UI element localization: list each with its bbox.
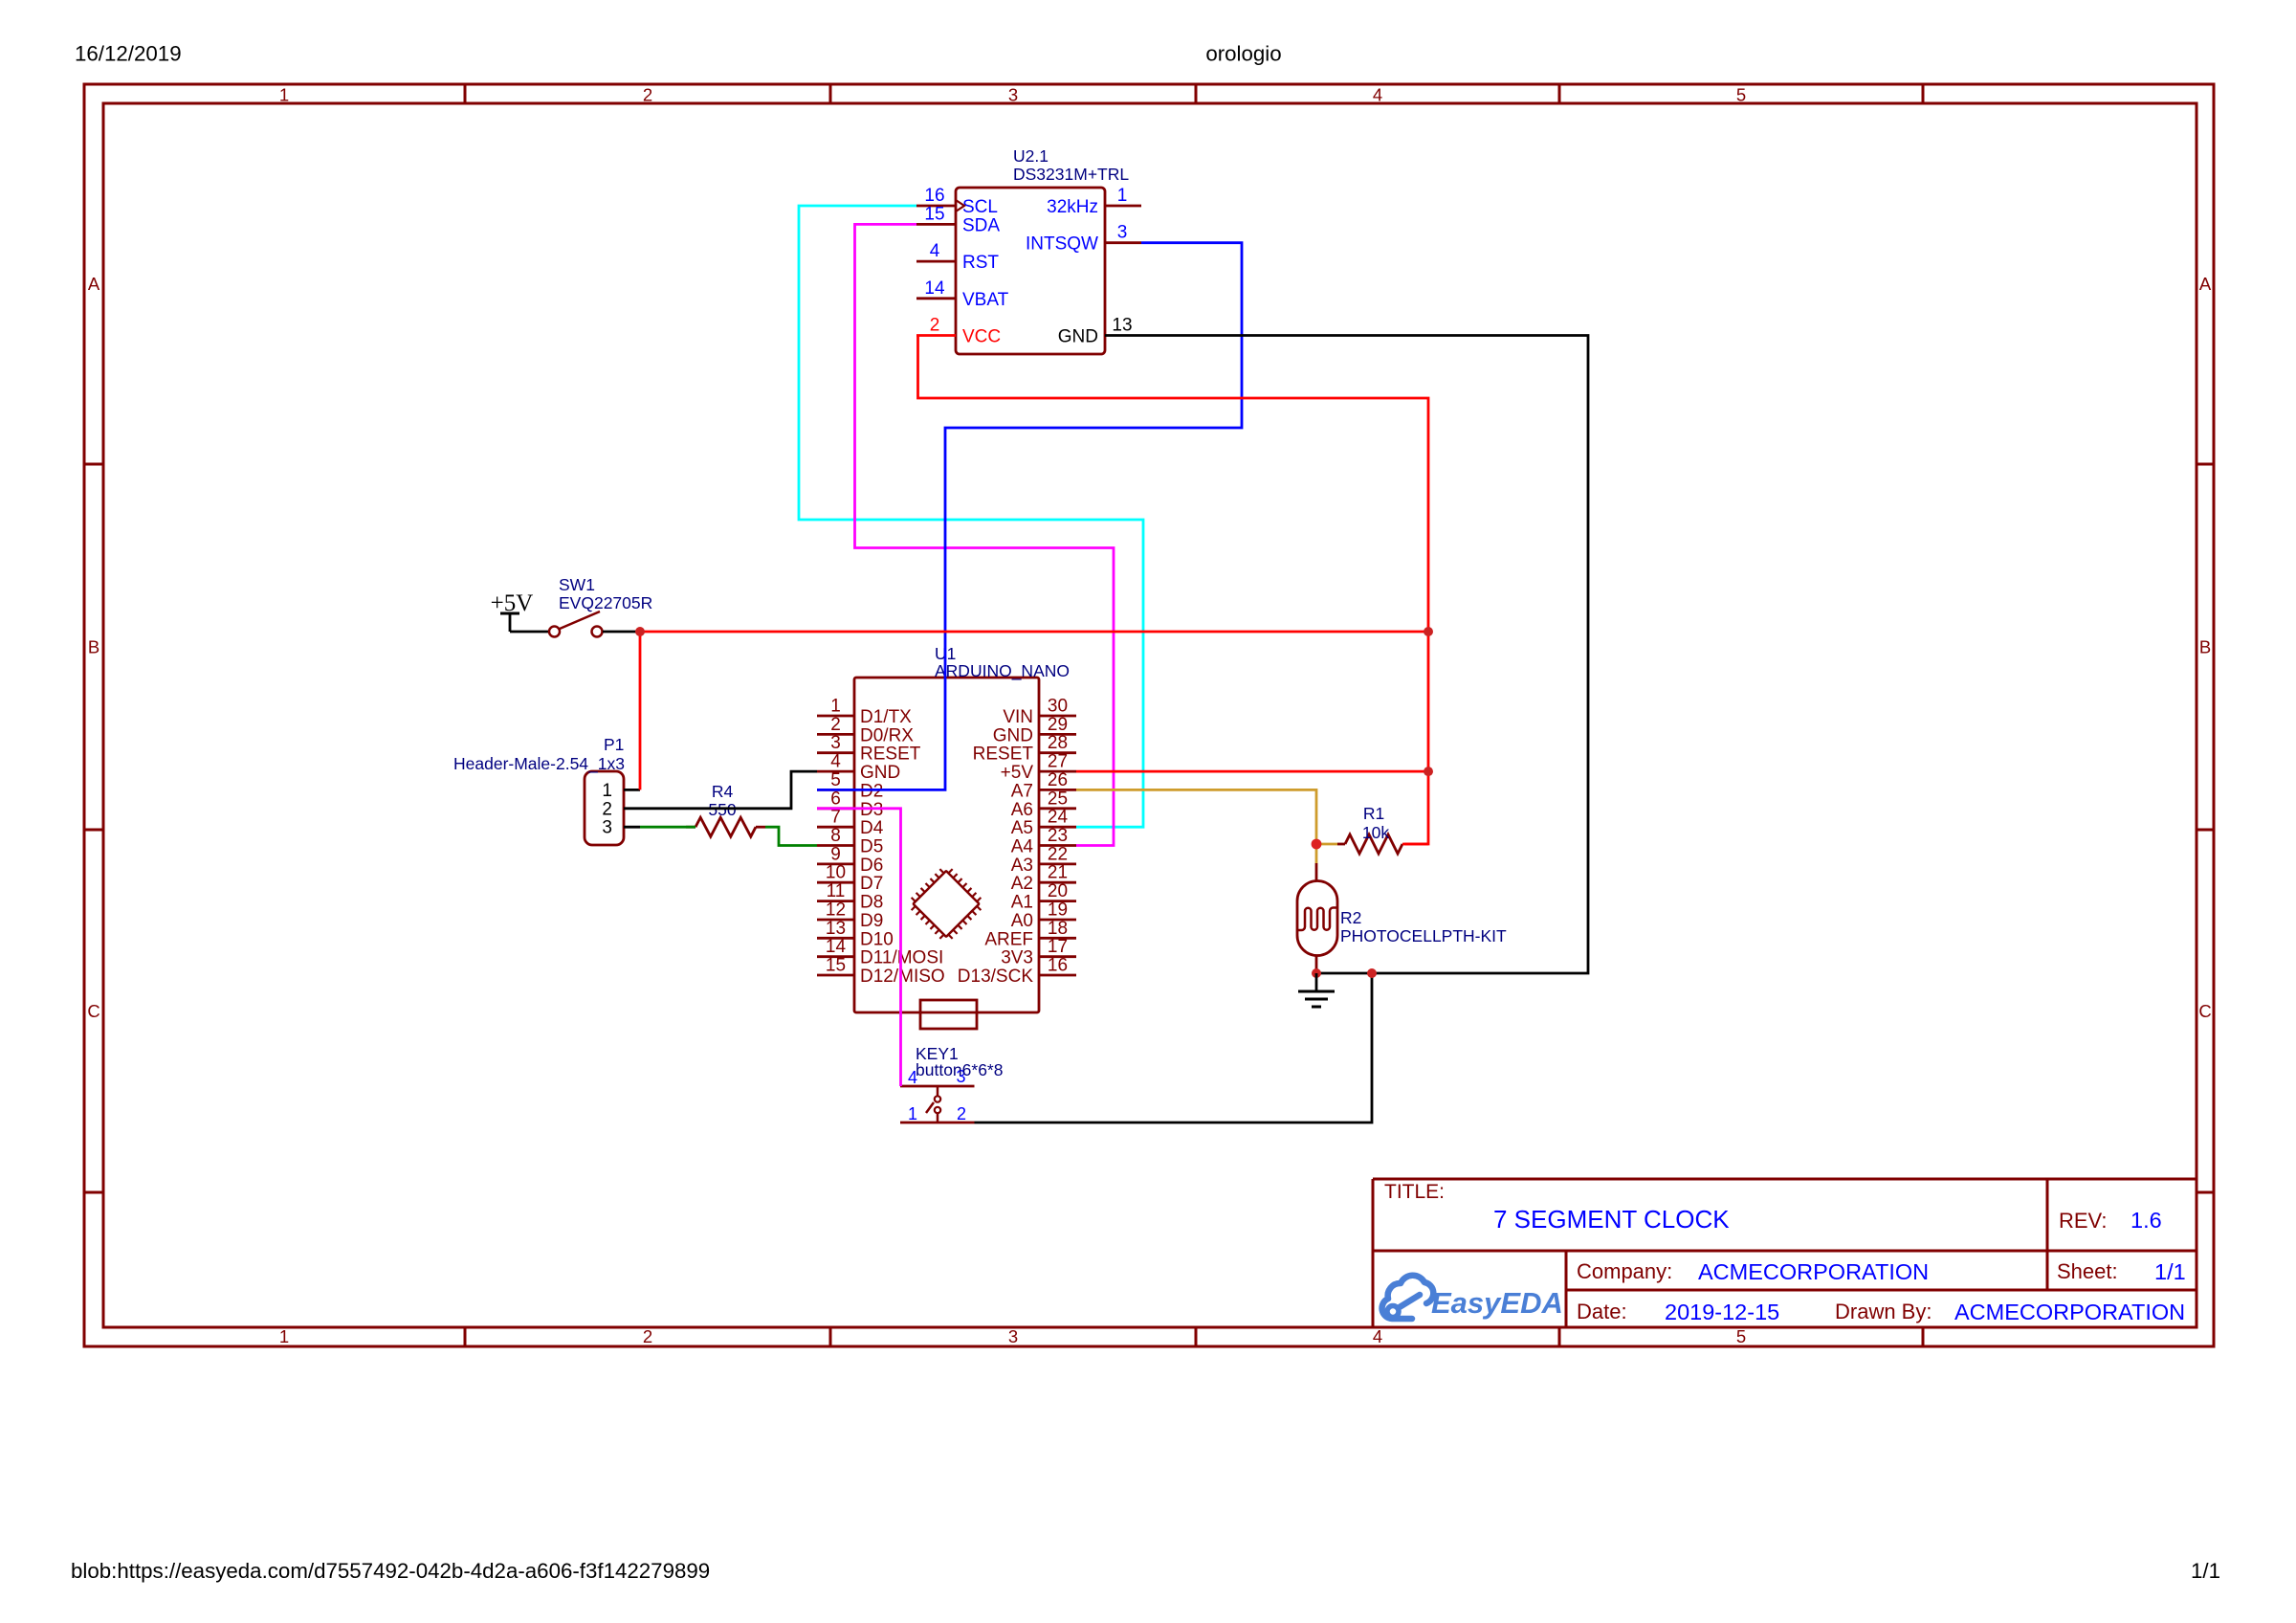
svg-text:3V3: 3V3 <box>1001 948 1033 968</box>
svg-text:18: 18 <box>1048 919 1068 939</box>
svg-text:+5V: +5V <box>1001 763 1034 783</box>
wire P1 pin2 to U1 GND (black) <box>640 771 817 809</box>
svg-text:C: C <box>87 1001 99 1021</box>
svg-text:D13/SCK: D13/SCK <box>958 967 1034 987</box>
svg-text:A7: A7 <box>1011 781 1033 801</box>
connector P1 Header-Male-2.54_1x3 body <box>585 771 624 845</box>
wire R4 to U1 D5 (green) <box>765 827 817 845</box>
svg-text:INTSQW: INTSQW <box>1026 234 1098 255</box>
svg-text:P1: P1 <box>604 735 624 754</box>
svg-text:9: 9 <box>830 844 841 864</box>
resistor R1 10k <box>1345 834 1402 854</box>
svg-text:21: 21 <box>1048 863 1068 883</box>
svg-text:SDA: SDA <box>962 215 1000 235</box>
R1 ref label <box>1362 804 1389 842</box>
svg-text:Sheet:: Sheet: <box>2057 1259 2118 1283</box>
resistor R4 550 <box>686 817 765 836</box>
svg-text:SCL: SCL <box>962 197 998 217</box>
svg-text:D1/TX: D1/TX <box>860 707 912 727</box>
svg-text:B: B <box>88 637 99 657</box>
svg-text:GND: GND <box>1058 327 1098 347</box>
wire GND net branch to KEY1 pin2 (black) <box>975 973 1373 1123</box>
svg-text:22: 22 <box>1048 844 1068 864</box>
page footer page number <box>2191 1559 2220 1583</box>
svg-text:1: 1 <box>830 697 841 717</box>
svg-text:orologio: orologio <box>1205 42 1281 66</box>
photoresistor R2 PHOTOCELLPTH-KIT <box>1297 863 1337 973</box>
title block text Date / Drawn By <box>1577 1300 2185 1324</box>
svg-text:R4: R4 <box>712 782 734 801</box>
R2 ref label <box>1340 908 1507 945</box>
svg-text:4: 4 <box>1373 1326 1382 1346</box>
switch SW1 EVQ22705R <box>510 611 640 637</box>
svg-text:1: 1 <box>908 1104 917 1123</box>
svg-text:1/1: 1/1 <box>2191 1559 2220 1583</box>
svg-text:32kHz: 32kHz <box>1047 197 1098 217</box>
junction A7 net at R1/R2 node <box>1312 839 1322 850</box>
U2.1 pin 2 VCC <box>916 316 1001 347</box>
svg-text:2: 2 <box>930 316 940 336</box>
svg-text:R2: R2 <box>1340 908 1361 927</box>
svg-text:B: B <box>2199 637 2211 657</box>
svg-text:A1: A1 <box>1011 893 1033 913</box>
title block grid <box>1373 1179 2197 1327</box>
sheet border frame <box>84 84 2214 1346</box>
svg-text:GND: GND <box>860 763 900 783</box>
svg-text:29: 29 <box>1048 715 1068 735</box>
svg-text:button6*6*8: button6*6*8 <box>916 1060 1003 1079</box>
svg-text:D3: D3 <box>860 800 883 820</box>
svg-text:13: 13 <box>826 919 846 939</box>
svg-text:PHOTOCELLPTH-KIT: PHOTOCELLPTH-KIT <box>1340 926 1507 945</box>
svg-text:2019-12-15: 2019-12-15 <box>1665 1300 1779 1324</box>
junction +5V at SW1 output <box>635 627 645 636</box>
SW1 ref label <box>559 575 652 612</box>
svg-text:10: 10 <box>826 863 846 883</box>
svg-text:14: 14 <box>924 278 945 299</box>
svg-text:EVQ22705R: EVQ22705R <box>559 593 652 612</box>
U1 left pins 1-15 <box>817 697 945 988</box>
svg-text:28: 28 <box>1048 733 1068 753</box>
svg-text:19: 19 <box>1048 900 1068 921</box>
wire +5V net VCC leg (red) <box>918 336 1429 845</box>
junction GND at KEY1 branch <box>1367 968 1377 978</box>
wire INTSQW net U2 pin3 to U1 D2 (blue) <box>817 243 1242 790</box>
U2.1 pin 16 SCL <box>916 186 998 217</box>
U1 MCU diamond glyph <box>905 863 987 945</box>
ground symbol below R2 <box>1298 973 1335 1007</box>
svg-text:D4: D4 <box>860 818 884 838</box>
svg-text:RESET: RESET <box>860 745 921 765</box>
svg-text:1: 1 <box>1117 186 1128 206</box>
title block text TITLE <box>1384 1181 1730 1234</box>
svg-text:U2.1: U2.1 <box>1013 146 1049 166</box>
U2.1 pin 15 SDA <box>916 204 1000 235</box>
svg-text:11: 11 <box>827 881 846 901</box>
KEY1 ref label <box>916 1044 1003 1079</box>
KEY1 pin numbers <box>908 1067 966 1123</box>
svg-text:15: 15 <box>924 204 944 224</box>
P1 pin 2 <box>602 799 640 819</box>
svg-text:A: A <box>88 274 100 294</box>
svg-text:3: 3 <box>602 818 612 838</box>
U2.1 pin 3 INTSQW <box>1026 223 1141 255</box>
svg-text:D8: D8 <box>860 893 883 913</box>
svg-text:27: 27 <box>1048 752 1068 772</box>
wire R1 to +5V vertical (red) <box>1402 843 1428 846</box>
svg-text:17: 17 <box>1048 937 1068 957</box>
svg-text:15: 15 <box>826 956 846 976</box>
svg-text:SW1: SW1 <box>559 575 595 594</box>
svg-text:Company:: Company: <box>1577 1259 1672 1283</box>
svg-text:3: 3 <box>1008 1326 1018 1346</box>
title block text REV <box>2059 1208 2162 1233</box>
svg-text:AREF: AREF <box>984 929 1033 949</box>
svg-text:GND: GND <box>993 725 1033 745</box>
wire SDA net U2 pin15 to U1 A4 (magenta) <box>855 224 1115 845</box>
svg-text:16: 16 <box>1048 956 1068 976</box>
svg-text:20: 20 <box>1048 881 1068 901</box>
svg-text:5: 5 <box>1736 85 1746 105</box>
svg-text:3: 3 <box>1008 85 1018 105</box>
svg-text:23: 23 <box>1048 826 1068 846</box>
svg-text:3: 3 <box>830 733 841 753</box>
svg-text:16/12/2019: 16/12/2019 <box>75 42 182 66</box>
P1 pin 1 <box>602 781 640 801</box>
svg-text:4: 4 <box>930 241 940 261</box>
svg-text:2: 2 <box>602 799 612 819</box>
svg-text:D5: D5 <box>860 837 883 857</box>
svg-text:2: 2 <box>643 85 652 105</box>
wire P1 pin3 to R4 (green) <box>640 826 695 829</box>
svg-text:1.6: 1.6 <box>2130 1208 2162 1233</box>
wire +5V net junction to P1 pin1 (red) <box>639 632 642 789</box>
svg-text:ACMECORPORATION: ACMECORPORATION <box>1954 1300 2185 1324</box>
U2.1 ref label <box>1013 146 1129 184</box>
svg-text:12: 12 <box>826 900 846 921</box>
pushbutton KEY1 button6*6*8 <box>900 1086 975 1123</box>
svg-text:10k: 10k <box>1362 823 1389 842</box>
svg-text:5: 5 <box>1736 1326 1746 1346</box>
P1 ref label <box>453 735 625 774</box>
page header date text <box>75 42 182 66</box>
svg-text:VIN: VIN <box>1003 707 1033 727</box>
svg-text:D12/MISO: D12/MISO <box>860 967 945 987</box>
svg-text:blob:https://easyeda.com/d7557: blob:https://easyeda.com/d7557492-042b-4… <box>71 1559 710 1583</box>
svg-text:VBAT: VBAT <box>962 290 1009 310</box>
svg-text:2: 2 <box>957 1104 966 1123</box>
svg-text:24: 24 <box>1048 808 1069 828</box>
svg-text:C: C <box>2198 1001 2211 1021</box>
svg-text:A5: A5 <box>1011 818 1033 838</box>
page footer url text <box>71 1559 710 1583</box>
svg-text:6: 6 <box>830 789 841 809</box>
svg-text:ARDUINO_NANO: ARDUINO_NANO <box>935 661 1070 681</box>
svg-text:4: 4 <box>1373 85 1382 105</box>
U1 ref label <box>935 644 1070 681</box>
svg-text:Header-Male-2.54_1x3: Header-Male-2.54_1x3 <box>453 754 625 774</box>
IC U1 ARDUINO_NANO body <box>854 678 1039 1012</box>
IC U2.1 DS3231M+TRL body <box>956 188 1105 354</box>
svg-text:A4: A4 <box>1011 837 1034 857</box>
U2.1 pin 4 RST <box>916 241 999 273</box>
title block text Company <box>1577 1259 1929 1284</box>
svg-text:D0/RX: D0/RX <box>860 725 914 745</box>
svg-text:RST: RST <box>962 253 999 273</box>
svg-text:R1: R1 <box>1363 804 1384 823</box>
junction GND at photocell <box>1312 968 1321 978</box>
svg-text:Date:: Date: <box>1577 1300 1627 1323</box>
svg-text:5: 5 <box>830 770 841 790</box>
svg-text:2: 2 <box>643 1326 652 1346</box>
page header title text <box>1205 42 1281 66</box>
wire +5V net SW1 to junction (red) <box>640 631 1428 634</box>
svg-text:1: 1 <box>279 1326 289 1346</box>
svg-text:14: 14 <box>826 937 847 957</box>
wire GND net U2 pin13 to photocell bottom (black) <box>1141 336 1588 974</box>
svg-text:26: 26 <box>1048 770 1068 790</box>
svg-text:25: 25 <box>1048 789 1068 809</box>
svg-text:D6: D6 <box>860 856 883 876</box>
junction +5V vertical at y660 <box>1424 627 1433 636</box>
wire D3 net U1 D3 to KEY1 pin4 (magenta) <box>817 809 901 1086</box>
svg-text:7: 7 <box>830 808 841 828</box>
svg-text:VCC: VCC <box>962 327 1001 347</box>
svg-text:8: 8 <box>830 826 841 846</box>
svg-text:REV:: REV: <box>2059 1209 2108 1233</box>
U2.1 pin 1 32kHz <box>1047 186 1141 217</box>
power flag +5V <box>491 590 534 632</box>
svg-text:Drawn By:: Drawn By: <box>1835 1300 1932 1323</box>
svg-text:A6: A6 <box>1011 800 1033 820</box>
svg-text:DS3231M+TRL: DS3231M+TRL <box>1013 165 1129 184</box>
U2.1 pin 13 GND <box>1058 316 1141 347</box>
svg-text:1: 1 <box>279 85 289 105</box>
U1 USB connector glyph <box>920 1000 977 1029</box>
svg-text:2: 2 <box>830 715 841 735</box>
svg-text:1: 1 <box>602 781 612 801</box>
svg-text:4: 4 <box>830 752 841 772</box>
U2.1 pin 14 VBAT <box>916 278 1009 310</box>
svg-text:A0: A0 <box>1011 911 1033 931</box>
svg-text:16: 16 <box>924 186 944 206</box>
svg-text:A3: A3 <box>1011 856 1033 876</box>
wire SCL net U2 pin16 to U1 A5 (cyan) <box>799 206 1143 827</box>
U1 right pins 30-16 <box>958 697 1076 988</box>
R4 ref label <box>708 782 736 819</box>
svg-text:3: 3 <box>1117 223 1128 243</box>
svg-text:D9: D9 <box>860 911 883 931</box>
svg-text:1/1: 1/1 <box>2154 1259 2186 1284</box>
svg-text:TITLE:: TITLE: <box>1384 1181 1445 1203</box>
svg-text:A2: A2 <box>1011 874 1033 894</box>
svg-text:7 SEGMENT CLOCK: 7 SEGMENT CLOCK <box>1493 1205 1730 1234</box>
svg-text:EasyEDA: EasyEDA <box>1431 1286 1563 1320</box>
junction +5V vertical at pin27 row <box>1424 767 1433 776</box>
P1 pin 3 <box>602 818 640 838</box>
svg-text:30: 30 <box>1048 697 1068 717</box>
svg-text:D2: D2 <box>860 781 883 801</box>
svg-text:D7: D7 <box>860 874 883 894</box>
svg-text:A: A <box>2199 274 2212 294</box>
svg-text:RESET: RESET <box>973 745 1034 765</box>
wire A7 net U1 pin26 to R1/R2 (orange) <box>1076 789 1345 863</box>
svg-text:ACMECORPORATION: ACMECORPORATION <box>1698 1259 1929 1284</box>
EasyEDA logo <box>1382 1276 1563 1320</box>
svg-text:D10: D10 <box>860 929 894 949</box>
wire +5V net U1 pin27 to junction (red) <box>1076 770 1428 773</box>
title block text Sheet <box>2057 1259 2186 1284</box>
svg-text:13: 13 <box>1112 316 1132 336</box>
